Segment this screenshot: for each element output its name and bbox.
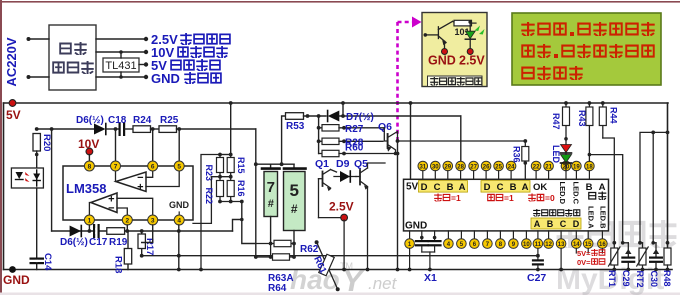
svg-text:GND: GND <box>3 273 30 287</box>
svg-text:B: B <box>510 182 517 193</box>
svg-text:R48: R48 <box>662 270 672 287</box>
capacitor C3 (bypass b) <box>428 231 442 252</box>
resistor R28 <box>317 138 383 149</box>
pin 14 <box>572 231 582 249</box>
thermistor RT1 <box>607 241 620 287</box>
svg-text:R15: R15 <box>236 157 246 174</box>
wire AC input top <box>28 38 49 40</box>
pin 8 (U4) <box>496 231 506 249</box>
wire pin2 down <box>126 225 128 231</box>
node x51.6 junction <box>50 127 54 131</box>
svg-text:8: 8 <box>88 164 92 171</box>
node R60 tap <box>396 152 400 156</box>
pin 24 <box>506 161 516 179</box>
wire output 10V <box>96 51 146 53</box>
pin 6 <box>148 161 158 171</box>
resistor R17 <box>138 229 155 258</box>
svg-text:C14: C14 <box>42 253 53 271</box>
node battery bus left <box>254 162 258 166</box>
svg-text:25: 25 <box>495 164 502 170</box>
svg-text:15: 15 <box>585 242 592 248</box>
wire R53 riser <box>282 116 286 164</box>
wire pin4 stub <box>178 212 180 220</box>
svg-text:R53: R53 <box>286 121 305 132</box>
svg-text:GND: GND <box>151 71 180 86</box>
resistor R62a (top row) <box>256 240 319 255</box>
svg-text:GND: GND <box>428 54 456 68</box>
pin 1 <box>405 231 415 272</box>
node D7 x343 <box>341 114 345 118</box>
wire output 2.5V <box>96 38 146 40</box>
pin 8 <box>84 161 94 171</box>
transistor Q6 <box>378 121 399 155</box>
resistor R61 (diagonal) <box>311 240 339 291</box>
svg-text:5: 5 <box>289 181 298 200</box>
wire R25 output down to battery bus <box>255 129 257 257</box>
resistor R15 <box>227 155 246 177</box>
resistor R23 <box>204 155 224 182</box>
pin 3 <box>148 215 158 225</box>
node divider middle + wire to LM358 <box>193 175 233 224</box>
resistor R27 <box>317 124 385 135</box>
svg-text:2.5V: 2.5V <box>459 54 485 68</box>
pin 5 <box>457 231 467 249</box>
pin 26 <box>481 161 491 179</box>
svg-text:.net: .net <box>368 274 398 293</box>
wire 5V top rail <box>4 102 669 104</box>
wire R44 to RT1 column <box>603 138 615 243</box>
capacitor C27 <box>527 248 546 284</box>
svg-text:C27: C27 <box>527 272 546 284</box>
regulator U2 TL431 box <box>103 58 139 72</box>
pin 31 <box>418 161 428 179</box>
svg-text:5: 5 <box>177 164 181 171</box>
label 温补 <box>588 192 606 201</box>
svg-text:C: C <box>434 182 441 193</box>
node right bus corner <box>666 131 670 135</box>
svg-text:28: 28 <box>457 164 464 170</box>
svg-text:7: 7 <box>114 164 118 171</box>
resistor R19 <box>107 228 128 248</box>
wire TL431 bottom stub to GND line <box>120 72 122 77</box>
resistor R24 <box>133 115 159 132</box>
node pin4 row255 <box>177 254 181 258</box>
pin 5 <box>174 161 184 171</box>
svg-text:LED.C: LED.C <box>572 182 581 205</box>
svg-text:A: A <box>599 182 606 193</box>
wire right frame vertical <box>667 103 669 250</box>
node AC input bottom <box>27 75 31 79</box>
svg-text:R22: R22 <box>204 188 214 205</box>
wire bottom row y=231 <box>52 230 233 232</box>
svg-text:14: 14 <box>573 242 580 248</box>
pin 18 <box>585 161 595 179</box>
wire output 5V ref <box>139 64 146 66</box>
node pin4 row231 <box>177 229 181 233</box>
wire op-amp A noninv input to pin5 <box>146 166 179 187</box>
svg-text:2.5V: 2.5V <box>329 200 354 214</box>
battery BT1 7# <box>262 164 280 243</box>
svg-text:5V: 5V <box>6 108 21 122</box>
svg-text:LED: LED <box>551 145 561 164</box>
wire right top corner bus <box>640 132 668 242</box>
label group2 D C B A (discharge) <box>481 181 530 193</box>
svg-text:X1: X1 <box>424 272 437 284</box>
svg-text:Q6: Q6 <box>378 121 392 133</box>
svg-text:D7(½): D7(½) <box>346 112 374 123</box>
page border bottom strip <box>0 293 680 295</box>
node output 10V terminal <box>144 50 148 54</box>
svg-text:R16: R16 <box>236 180 246 197</box>
svg-text:5V: 5V <box>406 182 419 193</box>
svg-text:10: 10 <box>523 242 530 248</box>
svg-text:D9: D9 <box>336 158 350 170</box>
wire op-amp A inv input to pin6 <box>146 166 153 177</box>
optocoupler U3 <box>11 168 43 188</box>
svg-text:R24: R24 <box>133 115 152 126</box>
svg-text:C17: C17 <box>89 237 108 248</box>
svg-text:D: D <box>573 219 580 229</box>
wire C30 column <box>652 132 654 242</box>
wire pin1 to row <box>88 225 90 231</box>
wire staircase row231 up toward divider <box>233 220 242 232</box>
svg-text:R20: R20 <box>41 134 52 151</box>
label 5V基准电源 <box>151 58 221 73</box>
svg-text:6: 6 <box>151 164 155 171</box>
node TL431 top <box>119 50 123 54</box>
svg-text:R23: R23 <box>204 165 214 182</box>
node R20 top <box>35 127 39 131</box>
wire Q5 emitter down <box>367 187 369 270</box>
svg-text:5V=: 5V= <box>577 249 591 258</box>
node output 2.5V terminal <box>144 37 148 41</box>
svg-text:R44: R44 <box>609 107 619 124</box>
svg-text:R27: R27 <box>345 124 364 135</box>
resistor R44 <box>599 101 618 138</box>
svg-text:C30: C30 <box>649 271 659 288</box>
node output GND terminal <box>144 75 148 79</box>
svg-text:LED.D: LED.D <box>558 182 567 205</box>
resistor R20 <box>33 134 52 170</box>
pin 13 <box>556 231 566 249</box>
svg-text:A: A <box>534 219 541 229</box>
pin 7 <box>483 231 493 249</box>
svg-text:RT2: RT2 <box>635 271 645 288</box>
pin 15 <box>583 231 593 249</box>
label 充饱=0 (red) <box>528 193 555 203</box>
wire left frame vertical <box>3 103 5 270</box>
wire rail drop x=343 to D7 <box>342 103 344 116</box>
pin 4 <box>174 215 184 225</box>
node pin13 rail <box>559 268 563 272</box>
pin 22 <box>531 161 541 179</box>
svg-text:R64: R64 <box>268 283 287 294</box>
pin 19 <box>572 161 582 179</box>
svg-text:10V: 10V <box>78 137 99 151</box>
svg-text:GND: GND <box>169 200 190 210</box>
pin 27 <box>469 161 479 179</box>
svg-text:#: # <box>268 198 274 210</box>
wire pin4 column to GND rail <box>178 225 180 270</box>
diode D6b (half) <box>60 226 88 249</box>
label 充电=1 (red) <box>434 193 461 203</box>
wire rail drop x=230.7 <box>230 103 232 155</box>
wire pin13 stub to rail <box>560 248 562 269</box>
svg-text:−: − <box>108 203 114 215</box>
wire divider bottom down to R62 row <box>242 202 256 244</box>
svg-text:12: 12 <box>545 242 552 248</box>
label B A (right group) <box>586 182 606 193</box>
charger IC U4 main box <box>404 179 609 231</box>
node C30 top tap <box>651 131 655 135</box>
node 10V supply (red) <box>86 148 93 155</box>
resistor R53 <box>286 113 327 132</box>
label 电池初始检测 <box>533 209 580 217</box>
resistor R47 <box>551 101 570 144</box>
node 2.5V pad (red) <box>467 49 473 55</box>
svg-text:D: D <box>484 182 491 193</box>
svg-text:11: 11 <box>535 242 542 248</box>
label 放电=1 (red) <box>487 193 514 203</box>
svg-text:3: 3 <box>151 218 155 225</box>
pin 12 <box>544 231 554 249</box>
wire GND bottom rail <box>4 269 673 271</box>
diode D7 (half) <box>328 111 461 124</box>
node Q6 col GND rail <box>396 268 400 272</box>
wire vertical x51.6 down to D6 bottom row <box>51 129 53 231</box>
battery BT2 5# <box>284 164 306 257</box>
resistor R62b (bottom row) <box>254 244 296 261</box>
node rail x410 <box>409 101 413 105</box>
svg-text:RT1: RT1 <box>607 270 617 287</box>
svg-text:AC220V: AC220V <box>4 37 19 86</box>
svg-text:TL431: TL431 <box>105 60 136 72</box>
svg-text:LED.B: LED.B <box>599 206 608 229</box>
resistor 101 <box>453 20 477 37</box>
resistor R25 <box>159 115 256 132</box>
op-amp B (bottom, pointing left) <box>91 193 117 215</box>
label 5V=红色 (red) <box>577 249 605 258</box>
pin 6 <box>470 231 480 249</box>
watermark 数码之家 MyDigit (right bottom) <box>556 220 676 295</box>
op-amp IC U1 LM358 <box>63 166 193 220</box>
svg-text:R25: R25 <box>160 115 179 126</box>
pin 11 <box>533 231 543 249</box>
resistor R16 <box>227 177 246 202</box>
svg-text:R18: R18 <box>113 256 124 273</box>
node divider top <box>218 153 233 157</box>
svg-text:R62: R62 <box>300 244 319 255</box>
label group3 A B C D (battery detect) <box>531 218 581 229</box>
diode D9 <box>331 158 357 182</box>
capacitor C30 <box>649 241 663 287</box>
pin 28 <box>456 161 466 179</box>
transistor Q display driver <box>424 21 453 48</box>
svg-text:31: 31 <box>419 164 426 170</box>
svg-text:26: 26 <box>483 164 490 170</box>
wire op-amp A output to pin7 <box>115 166 117 182</box>
node pin7 feed <box>114 127 118 131</box>
node GND pad (red) <box>442 49 448 55</box>
page border left/top (maroon) <box>0 0 2 295</box>
resistor R18 <box>113 231 132 273</box>
pin 4 <box>444 231 454 249</box>
pin 16 <box>598 231 608 249</box>
svg-text:B: B <box>547 219 554 229</box>
wire AC input bottom <box>28 76 49 78</box>
transformer T1 高频变压器 box <box>49 25 96 90</box>
diode D6a symbol <box>94 124 116 135</box>
svg-text:4: 4 <box>177 218 181 225</box>
wire pin5 vertical <box>178 129 180 161</box>
thermistor RT2 <box>635 241 648 288</box>
node output 5V terminal <box>144 62 148 66</box>
wire pin7 vertical <box>115 129 117 161</box>
node pin1 row <box>88 229 92 233</box>
node 2.5V (red) <box>341 214 348 221</box>
wire opto to C14 <box>36 188 38 270</box>
node rail x230 <box>229 101 233 105</box>
pin 20 <box>561 161 571 179</box>
wire bypass caps common to rail <box>422 252 435 271</box>
svg-text:R47: R47 <box>551 113 561 130</box>
svg-text:C29: C29 <box>621 270 631 287</box>
svg-text:2: 2 <box>125 218 129 225</box>
pin 7 <box>111 161 121 171</box>
wire battery bus y=164.2 <box>256 163 294 165</box>
pin 2 <box>122 215 132 225</box>
node AC input top <box>27 37 31 41</box>
wire R27 R28 R60 left bus <box>318 116 320 154</box>
node TL431 bottom <box>119 75 123 79</box>
label group1 D C B A (charge) <box>419 181 468 193</box>
capacitor C2 (bypass a) <box>415 231 429 252</box>
pins top row of U4 <box>418 161 594 179</box>
node 5V terminal (red) <box>9 100 16 107</box>
svg-text:#: # <box>291 202 298 216</box>
svg-text:B: B <box>586 182 593 193</box>
label GND电源地 <box>151 71 222 86</box>
pin 1 <box>84 215 94 225</box>
svg-text:A: A <box>522 182 529 193</box>
svg-text:R60: R60 <box>345 143 364 154</box>
note box 放电时，四通道同步进行，随便取一个通道的信号 <box>512 13 661 85</box>
svg-text:=1: =1 <box>451 193 461 203</box>
svg-text:29: 29 <box>444 164 451 170</box>
transistor Q5 <box>354 158 369 190</box>
svg-text:Q1: Q1 <box>315 158 329 170</box>
wire D7 line down to pin 28 <box>460 116 462 162</box>
wire divider top left branch <box>201 155 220 270</box>
resistor R22 <box>204 177 224 204</box>
wire Q6 collector column down <box>397 141 399 270</box>
wire pin3 output down and right <box>142 225 153 243</box>
pins bottom row of U4 <box>405 231 607 272</box>
op-amp A (top, pointing left) <box>116 172 146 194</box>
pin 30 <box>431 161 441 179</box>
svg-text:R43: R43 <box>577 110 587 127</box>
pin 25 <box>494 161 504 179</box>
svg-text:22: 22 <box>533 164 540 170</box>
pin 21 <box>544 161 554 179</box>
svg-text:24: 24 <box>508 164 515 170</box>
svg-text:LM358: LM358 <box>66 181 106 196</box>
svg-text:C: C <box>560 219 567 229</box>
transistor Q1 <box>315 158 332 191</box>
wire rail drop to IC 5V pin <box>410 103 412 179</box>
LED D display (green) <box>465 20 484 48</box>
LED D10 red <box>561 145 572 154</box>
resistor R36 <box>512 139 529 179</box>
svg-text:16: 16 <box>599 242 606 248</box>
wire pin14 pin15 pin16 stubs <box>576 248 602 253</box>
svg-text:R19: R19 <box>109 237 128 248</box>
added discharge display box (加装放电显示) <box>422 13 487 87</box>
svg-text:C: C <box>497 182 504 193</box>
svg-text:hao: hao <box>290 264 340 295</box>
capacitor C17 <box>89 224 108 248</box>
wire output GND <box>96 76 146 78</box>
wire op-amp B noninv input to pin3 <box>117 198 153 220</box>
pin 9 <box>509 231 519 249</box>
label 0V=绿色 (red) <box>577 258 605 267</box>
wire R17 bottom to pin4 column <box>142 255 538 257</box>
node battery bus R53 tap <box>280 162 284 166</box>
svg-text:7: 7 <box>267 179 275 196</box>
wire 2.5V node line <box>319 217 345 219</box>
node rail x343 <box>341 101 345 105</box>
svg-text:30: 30 <box>432 164 439 170</box>
svg-text:1: 1 <box>88 218 92 225</box>
resistor R48 <box>662 241 672 287</box>
wire TL431 top stub to 10V line <box>120 52 122 58</box>
capacitor C29 <box>621 241 635 287</box>
pin 10 <box>522 231 532 249</box>
svg-text:=1: =1 <box>504 193 514 203</box>
svg-text:0V=: 0V= <box>577 258 591 267</box>
svg-text:+: + <box>137 182 143 194</box>
label 2.5V充电电源 <box>151 32 231 47</box>
svg-text:13: 13 <box>558 242 565 248</box>
svg-text:=0: =0 <box>545 193 555 203</box>
svg-text:D6(½): D6(½) <box>60 237 88 248</box>
node pin2 row <box>125 229 129 233</box>
wire feed line y=129 (D6 C18 R24 R25 row) <box>37 128 94 130</box>
svg-text:LED.A: LED.A <box>587 206 596 229</box>
node Q5 emitter rail <box>366 268 370 272</box>
svg-text:19: 19 <box>573 164 580 170</box>
svg-text:GND: GND <box>405 221 427 232</box>
wire 2.5V down to rail <box>343 220 345 270</box>
wire Q6 collector to R36 <box>398 140 526 142</box>
resistor R43 <box>577 101 593 161</box>
svg-text:C18: C18 <box>108 115 127 126</box>
svg-text:21: 21 <box>545 164 552 170</box>
node pin4 GND rail <box>177 268 181 272</box>
svg-text:27: 27 <box>470 164 477 170</box>
wire op-amp B inv input to pin2 <box>117 208 127 220</box>
label R63A R64 <box>268 273 294 294</box>
svg-text:A: A <box>459 182 466 193</box>
wire 10V to pin8 <box>88 155 90 162</box>
svg-text:18: 18 <box>586 164 593 170</box>
LED D11 green <box>561 153 572 171</box>
pin 29 <box>443 161 453 179</box>
wire Q5 collector up-right <box>368 163 386 168</box>
resistor R60 <box>319 143 398 157</box>
svg-text:OK: OK <box>533 182 547 193</box>
watermark haoY.net (center bottom) <box>290 261 398 295</box>
